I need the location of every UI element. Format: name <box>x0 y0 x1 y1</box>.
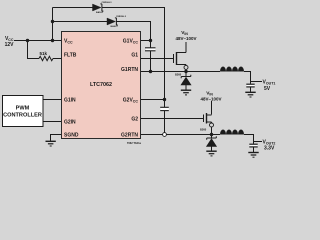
svg-text:51k: 51k <box>39 51 47 56</box>
svg-text:CONTROLLER: CONTROLLER <box>3 113 42 119</box>
svg-text:48V–100V: 48V–100V <box>200 96 221 101</box>
svg-text:FLTB: FLTB <box>64 52 77 58</box>
svg-text:PWM: PWM <box>16 106 30 112</box>
svg-text:SGND: SGND <box>64 132 79 138</box>
svg-text:BAS21: BAS21 <box>96 11 104 14</box>
svg-text:LTC7062: LTC7062 <box>90 82 112 88</box>
svg-text:48V–100V: 48V–100V <box>175 36 196 41</box>
svg-text:G1: G1 <box>131 52 138 58</box>
svg-text:5V: 5V <box>264 86 271 92</box>
svg-text:G1RTN: G1RTN <box>121 67 138 73</box>
svg-text:G2IN: G2IN <box>64 119 76 125</box>
svg-text:B260: B260 <box>175 72 182 76</box>
svg-text:BAS21: BAS21 <box>111 25 119 28</box>
svg-text:G2: G2 <box>131 116 138 122</box>
svg-text:B260: B260 <box>200 127 207 131</box>
svg-text:7062 TA01a: 7062 TA01a <box>127 141 142 145</box>
svg-text:G1IN: G1IN <box>64 97 76 103</box>
svg-text:CMDSH-3: CMDSH-3 <box>116 16 127 18</box>
svg-text:3.3V: 3.3V <box>264 146 275 152</box>
svg-text:12V: 12V <box>5 42 15 48</box>
svg-text:G2RTN: G2RTN <box>121 132 138 138</box>
svg-text:CMDSH-3: CMDSH-3 <box>102 2 113 4</box>
